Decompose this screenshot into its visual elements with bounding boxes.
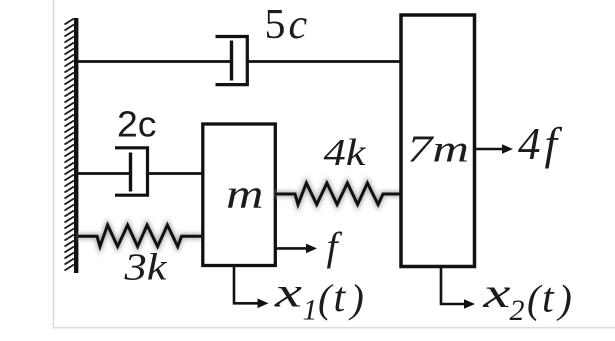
wall line [74, 18, 78, 273]
svg-text:3k: 3k [123, 247, 167, 289]
damper 2c piston [129, 153, 132, 192]
svg-text:): ) [557, 277, 572, 322]
svg-text:m: m [226, 171, 264, 217]
force 4f arrow [475, 148, 504, 151]
svg-text:4k: 4k [324, 132, 367, 174]
svg-text:7m: 7m [407, 129, 469, 171]
wall hatching [65, 19, 75, 271]
svg-text:t: t [542, 276, 555, 322]
svg-text:4f: 4f [518, 119, 563, 169]
svg-text:2: 2 [510, 294, 525, 327]
spring 3k [78, 225, 203, 247]
displacement x2 takeoff (wire) [441, 267, 466, 305]
damper 5c piston [230, 41, 233, 81]
displacement x1 takeoff (wire) [234, 266, 259, 304]
force f arrow [276, 247, 308, 250]
mass 7m [401, 15, 475, 267]
svg-text:2c: 2c [117, 104, 157, 145]
mass m [203, 124, 275, 266]
damper 5c cylinder [216, 37, 248, 85]
svg-text:x: x [274, 271, 303, 317]
damper 2c rod right (wire) [148, 172, 204, 175]
svg-text:t: t [334, 275, 347, 321]
svg-text:1: 1 [303, 294, 318, 327]
damper 2c cylinder [115, 148, 148, 195]
svg-text:): ) [349, 276, 364, 321]
svg-text:x: x [482, 271, 511, 317]
label x2(t) [482, 271, 572, 327]
damper 5c rod right (wire) [247, 60, 402, 63]
damper 5c rod left (wire) [78, 60, 232, 63]
spring 4k [275, 183, 402, 205]
damper 2c rod left (wire) [78, 172, 131, 175]
label x1(t) [274, 271, 364, 327]
